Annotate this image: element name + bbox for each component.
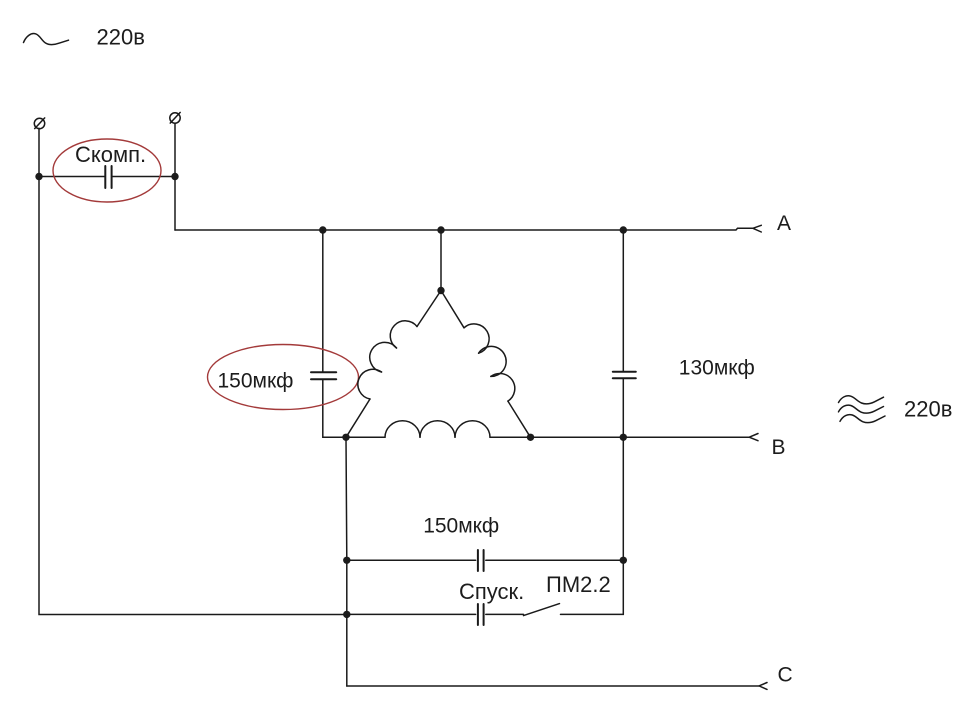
wire: phase C line (347, 685, 759, 687)
label С (phase C) (778, 664, 793, 687)
junction right/C150 bottom (620, 557, 627, 564)
label 220в (right) (904, 397, 952, 422)
wire: T2 down to phase A line (174, 177, 176, 231)
svg-text:В: В (772, 436, 786, 459)
label А (phase A) (777, 212, 791, 235)
capacitor 150мкф (bottom start capacitor) (347, 550, 624, 571)
label 130мкф (679, 357, 755, 380)
wire: left long run down (39, 177, 347, 615)
junction center/C150 bottom (343, 557, 350, 564)
svg-text:220в: 220в (97, 25, 145, 50)
label 150мкф (left) (218, 370, 294, 393)
switch ПМ2.2 lever (524, 604, 624, 616)
junction at T2/Скомп (171, 173, 178, 180)
wire: phase B line (531, 436, 750, 438)
AC source squiggle (top-left sine symbol) (24, 34, 69, 45)
highlight ellipse around 150мкф (208, 345, 359, 410)
junction A/C150 branch (319, 226, 326, 233)
motor winding L3 (bottom side of delta) (346, 421, 531, 437)
wire: phase A line (175, 228, 754, 230)
capacitor Скомп (compensation capacitor) (39, 166, 175, 188)
motor winding L1 (left side of delta) (346, 291, 441, 438)
three-phase waves symbol (839, 396, 886, 423)
label Скомп. (75, 142, 146, 167)
label 220в (top-left) (97, 25, 145, 50)
junction A/C130 branch (620, 226, 627, 233)
svg-text:130мкф: 130мкф (679, 357, 755, 380)
wire: down to phase C line (346, 614, 348, 686)
wire: center vertical below delta (345, 437, 348, 614)
terminal T1 (left screw terminal) (34, 118, 44, 129)
arrow at C line end (759, 683, 767, 690)
wire: T2 stem (174, 123, 176, 176)
junction at T1/Скомп (35, 173, 42, 180)
arrow at A line end (753, 225, 761, 232)
junction delta bottom-right (527, 434, 534, 441)
junction B/C130 (620, 434, 627, 441)
svg-text:ПМ2.2: ПМ2.2 (546, 572, 611, 597)
highlight ellipse around Скомп (53, 139, 161, 202)
junction A/motor apex (437, 226, 444, 233)
svg-text:150мкф: 150мкф (218, 370, 294, 393)
label Спуск. (459, 579, 524, 604)
capacitor Спуск (start capacitor) (347, 604, 524, 625)
wire: T1 stem (38, 128, 40, 176)
terminal T2 (right screw terminal) (170, 112, 180, 123)
junction center/Спуск row (343, 611, 350, 618)
svg-text:Скомп.: Скомп. (75, 142, 146, 167)
capacitor 150мкф (left run capacitor) (311, 230, 346, 437)
capacitor 130мкф (right run capacitor) (613, 230, 636, 437)
arrow at B line end (750, 434, 759, 441)
svg-text:А: А (777, 212, 791, 235)
junction delta bottom-left (342, 434, 349, 441)
wire: A line to motor apex (440, 230, 442, 291)
label В (phase B) (772, 436, 786, 459)
svg-text:Спуск.: Спуск. (459, 579, 524, 604)
junction motor apex (437, 287, 444, 294)
svg-text:220в: 220в (904, 397, 952, 422)
svg-text:С: С (778, 664, 793, 687)
label 150мкф (bottom) (423, 515, 499, 538)
label ПМ2.2 (546, 572, 611, 597)
wire: B node down right side loop (622, 437, 624, 614)
motor winding L2 (right side of delta) (441, 291, 531, 438)
svg-text:150мкф: 150мкф (423, 515, 499, 538)
